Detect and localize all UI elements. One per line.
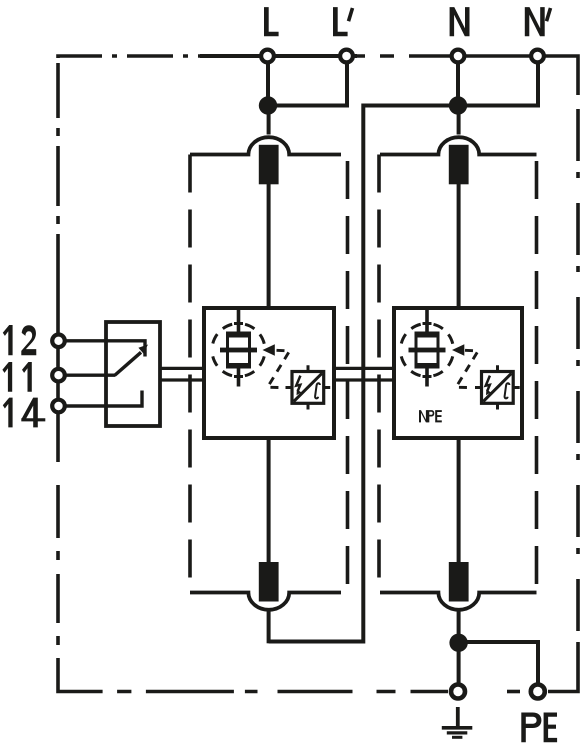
remote signalling switch box [106, 322, 160, 426]
label 11 [2, 362, 31, 392]
terminal 11 [52, 369, 65, 382]
module 2 enclosure right dashed edge [535, 161, 539, 593]
terminal PE [531, 685, 545, 699]
border bottom-left corner [58, 658, 95, 692]
spark gap symbol module 2 [401, 310, 479, 388]
module 2 lower thermal disconnector [449, 562, 469, 602]
trigger dashed action line module 2 [456, 350, 478, 387]
module 2 enclosure top edge with arch [380, 137, 537, 154]
module 1 enclosure top edge with arch over disconnector [190, 137, 341, 154]
wire module 2 box to lower disconnector [457, 438, 461, 563]
label N [450, 7, 470, 36]
wire terminal 12 to switch contact [58, 341, 145, 357]
label NPE [419, 410, 442, 422]
module 2 box [394, 308, 522, 438]
wire N to N' through-connection on border [448, 54, 548, 58]
spark gap symbol module 1 [212, 310, 290, 388]
terminal L [261, 50, 274, 63]
terminal 14 [52, 400, 65, 413]
wire module 2 upper disconnector to box [457, 183, 461, 308]
border right edge dash-dot [576, 95, 580, 648]
label L [264, 7, 279, 36]
wire module 2 lower arch to ground terminal [457, 612, 461, 692]
wire L down to node [266, 56, 270, 106]
terminal N [452, 50, 465, 63]
border segment N' to top-right corner and down [548, 56, 578, 95]
spark gap leads module 1 [237, 310, 241, 387]
terminal N' [531, 50, 544, 63]
surge waveform glyph module 1 [315, 383, 320, 398]
surge waveform glyph module 2 [505, 383, 510, 398]
trigger arrow module 1 [263, 344, 275, 355]
wire terminal 11 to switch pivot [58, 374, 115, 377]
mechanical linkage switch to module 1 [160, 368, 204, 380]
border left edge upper dash-dot [56, 56, 60, 289]
wire module 2 top lead [457, 106, 461, 135]
module 1 enclosure bottom edge with arch [190, 593, 341, 610]
spark gap leads module 2 [425, 310, 429, 387]
label N' [525, 7, 545, 36]
lightning bolt glyph module 2 [486, 376, 490, 392]
terminal ground [451, 685, 465, 699]
wire module 1 top lead [267, 106, 271, 135]
junction node L [259, 96, 277, 114]
junction node N [449, 96, 467, 114]
spark gap electrodes module 1 [226, 332, 251, 338]
outer dash-dot enclosure border, top-left segment [58, 56, 200, 58]
lightning bolt glyph module 1 [296, 376, 300, 392]
wire terminal 14 to switch contact [58, 391, 142, 407]
border left edge solid near signalling terminals [56, 289, 60, 462]
mechanical linkage module 1 to module 2 [334, 368, 394, 380]
spark gap dashed circle module 1 [212, 324, 265, 377]
wire module 1 box to lower disconnector [267, 438, 271, 563]
module 2 enclosure left dashed edge [377, 155, 381, 593]
module 1 box [204, 308, 334, 438]
label 14 [3, 398, 46, 428]
trigger unit box module 2 [475, 365, 520, 409]
junction node PE [449, 634, 467, 652]
ground symbol [442, 707, 473, 737]
border bottom edge left of ground terminal [95, 690, 448, 694]
spark gap dashed circle module 2 [401, 324, 454, 377]
spark gap electrodes module 2 [415, 332, 440, 338]
wire module 1 upper disconnector to box [267, 183, 271, 308]
wire module 1 below lower arch [267, 612, 271, 644]
switch blade with arrowhead [115, 352, 142, 375]
border bottom-right corner [548, 648, 578, 692]
module 1 enclosure left dashed edge [188, 155, 192, 593]
label 12 [3, 325, 37, 355]
terminal L' [340, 50, 353, 63]
border left edge lower dash-dot [56, 462, 60, 658]
wire from N node left and down to bottom of module 1 [269, 106, 458, 642]
label PE [521, 713, 541, 743]
wire PE node right and down to PE terminal [459, 642, 538, 692]
wire N' down and left to N node [458, 56, 538, 106]
module 2 enclosure bottom edge with arch [380, 593, 537, 610]
trigger dashed action line module 1 [268, 350, 290, 387]
trigger unit box module 1 [286, 365, 331, 409]
wire N down to node [456, 56, 460, 106]
terminal 12 [52, 335, 65, 348]
border segment L' to N [357, 54, 448, 58]
trigger arrow module 2 [452, 344, 464, 355]
wire L to L' through-connection on border [200, 54, 357, 58]
module 1 upper thermal disconnector [259, 145, 279, 185]
module 1 enclosure right dashed edge [346, 161, 350, 593]
module 1 lower thermal disconnector [259, 562, 279, 602]
border bottom dash between ground and PE [507, 690, 520, 694]
label L' [333, 7, 348, 36]
module 2 upper thermal disconnector [449, 145, 469, 185]
wire L' down and left to L node [268, 56, 347, 106]
